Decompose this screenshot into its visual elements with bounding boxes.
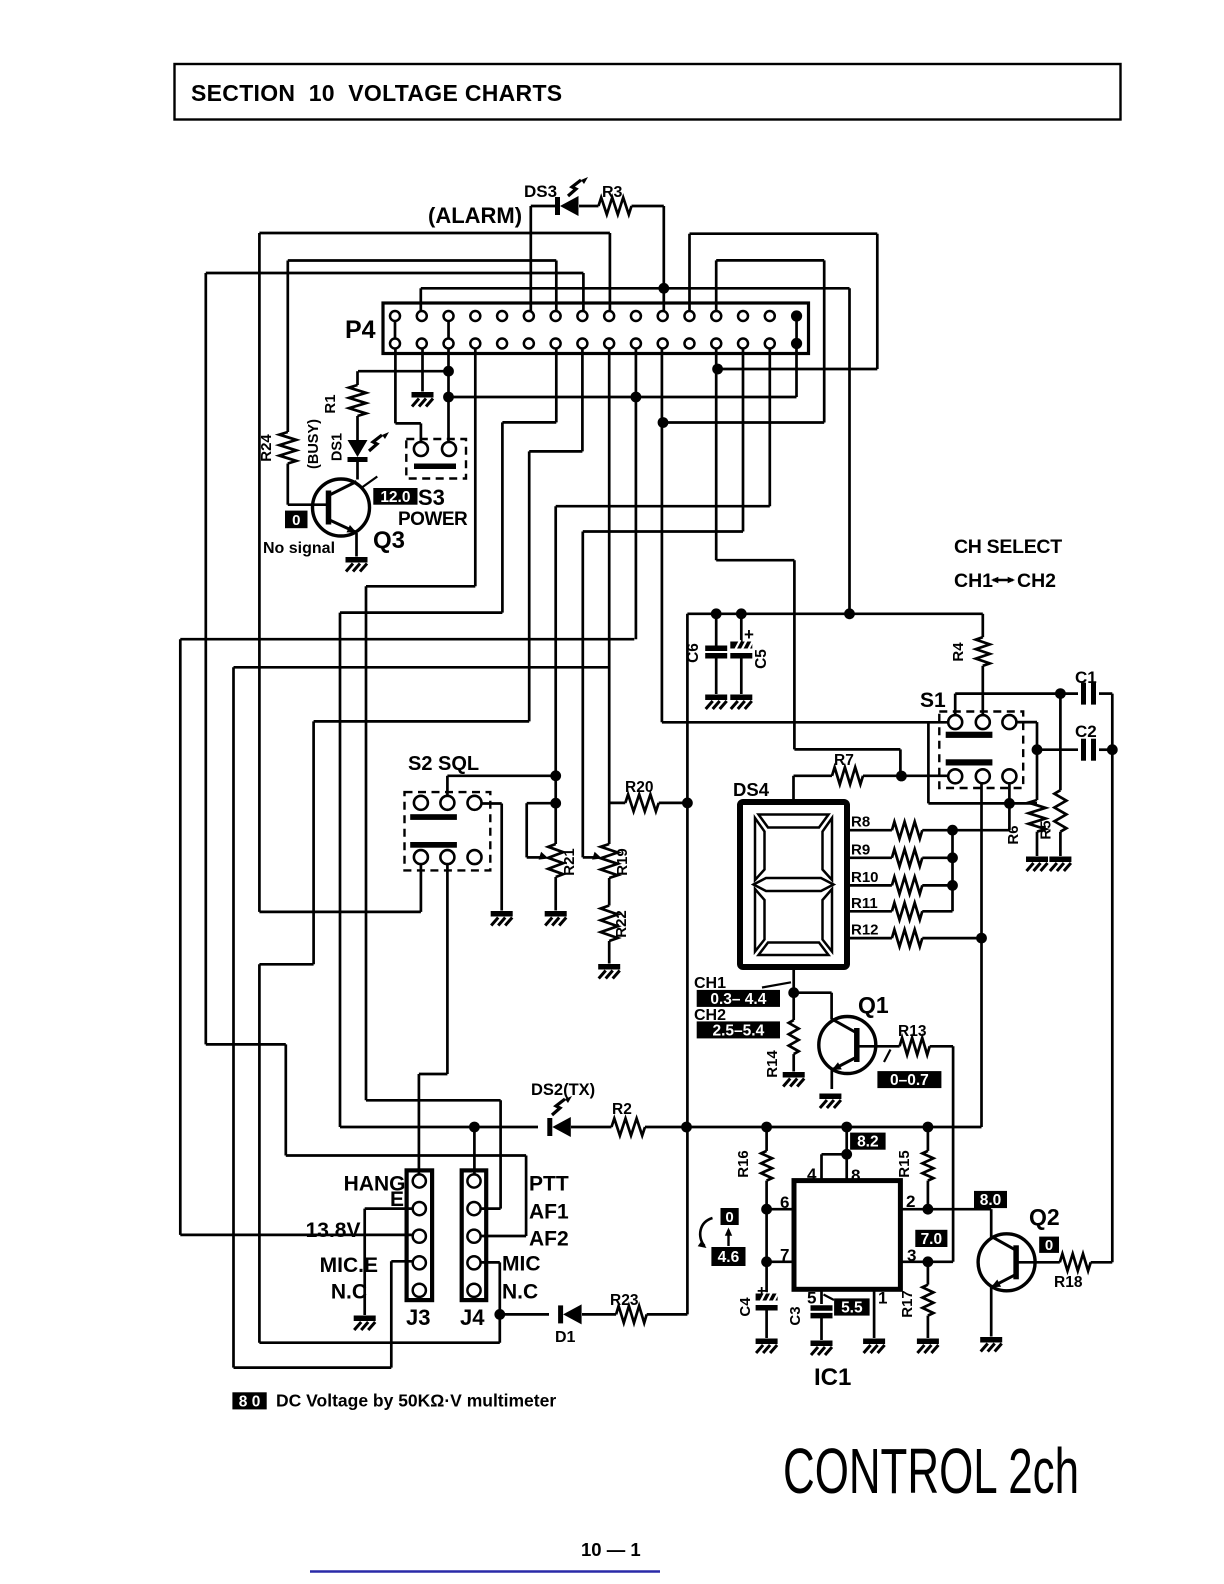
svg-text:AF1: AF1: [529, 1201, 569, 1224]
wire MIC elbow: [481, 1261, 500, 1264]
wire pin7 vertical x502: [501, 422, 504, 612]
leader line 12.0: [363, 477, 378, 488]
svg-text:3: 3: [907, 1246, 916, 1265]
arrow 4.6 to 0: [727, 1230, 729, 1246]
wire Q2 collector lead: [990, 1209, 993, 1238]
wire supply line y1127: [645, 1126, 982, 1129]
ground under Q1: [819, 1094, 841, 1100]
wire right-edge vertical x1112: [1111, 694, 1114, 1263]
legend 8.0 box: [232, 1392, 266, 1409]
svg-text:R8: R8: [851, 814, 870, 831]
svg-text:R13: R13: [898, 1023, 927, 1040]
svg-text:0.3– 4.4: 0.3– 4.4: [710, 991, 766, 1008]
svg-text:AF2: AF2: [529, 1228, 569, 1251]
wire S1-tl stub up: [954, 694, 957, 716]
wire R16 top lead: [765, 1127, 768, 1151]
svg-text:CONTROL 2ch: CONTROL 2ch: [783, 1435, 1079, 1507]
svg-text:8 0: 8 0: [239, 1393, 261, 1410]
wire line C (AF2 bus to pin8 top): [206, 272, 584, 275]
wire HANG to J3 pin1: [418, 1074, 421, 1175]
wire pin15 line to S2/R21: [556, 505, 770, 508]
wire Q2 base lead: [1016, 1261, 1059, 1264]
voltage 0 at Q2: [1039, 1237, 1059, 1253]
resistor R17: [922, 1285, 933, 1316]
wire pin13 down to R7 line: [899, 749, 902, 776]
wire D1 line left: [500, 1313, 549, 1316]
wire pin13 vertical x794: [793, 560, 796, 749]
wire S1-tr elbow: [1016, 721, 1037, 724]
svg-text:J3: J3: [406, 1305, 430, 1330]
wire supply rail y614: [687, 612, 982, 615]
wire R24 to Q3 base: [286, 464, 289, 505]
wire 13.8V bus to pin10: [180, 638, 634, 641]
svg-text:CH SELECT: CH SELECT: [954, 536, 1062, 558]
wire R7 left lead: [794, 774, 833, 777]
wire P4 col1 internal link: [394, 321, 397, 339]
node pin4/pin8 tie: [841, 1149, 852, 1160]
wire vertical x928 (rail to y803): [927, 722, 930, 803]
node rail/col2 branch: [844, 608, 855, 619]
wire R21 wiper arrow lead: [527, 856, 541, 859]
wire pin8 line left (MIC bus): [314, 720, 530, 723]
svg-text:C5: C5: [753, 649, 770, 669]
wire DS1 to Q3 collector: [356, 462, 359, 480]
wire Q2 emitter to ground: [990, 1288, 993, 1337]
wire line B down (R24 top): [286, 261, 289, 433]
wire line B (R24 to pin7 top): [288, 259, 557, 262]
svg-text:2.5–5.4: 2.5–5.4: [712, 1023, 764, 1040]
svg-text:R6: R6: [1005, 825, 1022, 844]
voltage 0 at pin6: [721, 1208, 739, 1225]
voltage label 12.0 at Q3 collector: [373, 488, 417, 505]
svg-text:0: 0: [725, 1209, 733, 1226]
IC U1 (IC1): [794, 1181, 900, 1290]
wire R19 wiper arrow lead: [583, 856, 595, 859]
wire R1 top line: [358, 370, 449, 373]
node R7 line / pin13 branch: [896, 771, 907, 782]
wire pin7 lead: [767, 1260, 794, 1263]
wire pin7 top stub: [555, 261, 558, 312]
wire pin2 line: [900, 1208, 991, 1211]
wire R20 right lead: [659, 802, 688, 805]
svg-text:2: 2: [906, 1192, 915, 1211]
wire col11 branch y422: [663, 421, 824, 424]
wire line D (pin2 top to rail): [421, 287, 850, 290]
wire S1-bm pin down to supply line: [980, 783, 983, 1126]
leader 0-0.7: [884, 1050, 891, 1063]
voltage 4.6: [711, 1247, 745, 1266]
svg-text:S1: S1: [920, 689, 946, 712]
wire Q1 collector lead: [830, 993, 833, 1020]
wire S1-tr down to C2 line: [1036, 722, 1039, 750]
svg-text:R10: R10: [851, 869, 879, 886]
svg-text:DC Voltage by 50KΩ·V multimete: DC Voltage by 50KΩ·V multimeter: [276, 1391, 556, 1411]
LED DS1 (BUSY): [348, 440, 368, 457]
svg-text:+: +: [744, 625, 754, 644]
svg-text:D1: D1: [555, 1329, 576, 1346]
wire pin1 to ground: [873, 1289, 876, 1338]
wire MIC.E bus to pin9 column: [234, 666, 610, 669]
ground under R5: [1049, 857, 1071, 863]
capacitor C6: [715, 614, 718, 648]
wire E pin to ground: [365, 1207, 413, 1210]
wire R12 right lead: [922, 937, 981, 940]
resistor R1: [349, 385, 366, 416]
transistor Q3: [313, 479, 370, 536]
wire DS4 common bottom: [792, 967, 795, 1020]
wire pin2 top stub: [419, 288, 422, 311]
voltage 8.2: [850, 1133, 886, 1150]
wire S1-br pin down to R8 line: [1008, 783, 1011, 830]
svg-text:R21: R21: [561, 848, 578, 876]
node supply/pin8: [841, 1122, 852, 1133]
wire pin15 bottom stub: [768, 349, 771, 507]
svg-text:10 — 1: 10 — 1: [581, 1539, 641, 1560]
wire 13.8V line: [180, 1234, 412, 1237]
wire HANG jog: [419, 1073, 448, 1076]
svg-text:8.2: 8.2: [857, 1134, 879, 1151]
node pin3/R17: [923, 1256, 934, 1267]
wire R7 to S1: [863, 774, 948, 777]
wire S2 top-right to ground: [500, 804, 503, 911]
node C2 / right vertical: [1107, 744, 1118, 755]
wire supply end to S1-bm column: [980, 1125, 983, 1128]
resistor R5: [1059, 694, 1062, 791]
wire PTT stub to J4: [473, 1127, 476, 1175]
wire R15 top lead: [927, 1127, 930, 1151]
ground under C3: [811, 1341, 833, 1347]
svg-text:DS1: DS1: [330, 433, 346, 461]
svg-text:Q2: Q2: [1029, 1204, 1060, 1230]
wire AF1 bus vertical x366: [365, 586, 368, 1100]
ground under R14: [783, 1072, 805, 1078]
svg-text:No signal: No signal: [263, 540, 335, 557]
resistor R23: [616, 1306, 647, 1323]
wire R10 right lead: [922, 884, 952, 887]
ground under E: [354, 1316, 376, 1322]
wire S2 bottom-left to x259: [259, 911, 421, 914]
wire pin9 top stub: [609, 233, 612, 311]
connector P4: [383, 303, 809, 354]
voltage 5.5: [834, 1298, 870, 1315]
ground under R6: [1026, 857, 1048, 863]
node C2 line / R6 column: [1032, 744, 1043, 755]
wire Q1 emitter to ground: [830, 1070, 833, 1089]
resistor R16: [761, 1151, 772, 1181]
wire R13 down to pin3 net: [952, 1046, 955, 1262]
svg-text:5: 5: [807, 1289, 816, 1308]
wire S2 bottom-left stub: [420, 864, 423, 912]
svg-text:5.5: 5.5: [841, 1300, 863, 1317]
wire MIC.E vertical: [390, 1261, 393, 1367]
node C1 line / R5: [1055, 688, 1066, 699]
wire AF2 top run: [286, 1154, 526, 1157]
DS2 light arrows: [552, 1099, 565, 1115]
connector J4: [462, 1170, 487, 1300]
wire S2 top-middle stub: [446, 776, 449, 796]
svg-text:N.C: N.C: [502, 1281, 538, 1304]
voltage label 0-0.7: [877, 1071, 941, 1088]
svg-text:R19: R19: [614, 848, 631, 876]
ground under Q2: [980, 1337, 1002, 1343]
wire pin8 supply lead: [845, 1127, 848, 1181]
svg-text:CH2: CH2: [1017, 570, 1056, 592]
resistor R14: [789, 1020, 799, 1054]
wire Q3 emitter to ground: [355, 533, 358, 557]
svg-text:R18: R18: [1054, 1274, 1083, 1291]
ground under R17: [917, 1339, 939, 1345]
node R21 column / S2: [550, 770, 561, 781]
wire pin10 bottom stub: [635, 349, 638, 640]
wire R9 right lead: [922, 856, 952, 859]
wire R17 top lead: [927, 1262, 930, 1285]
wire pin4 elbow: [822, 1153, 847, 1156]
wire C1 line: [955, 692, 1078, 695]
arrow CH1-CH2: [993, 579, 1013, 582]
wire DS4 common top stub: [792, 776, 795, 802]
wire pin12 top loop: [690, 232, 878, 235]
svg-text:R23: R23: [610, 1292, 639, 1309]
svg-text:R4: R4: [950, 642, 967, 662]
switch S2 SQL: [405, 792, 491, 870]
svg-text:C2: C2: [1075, 722, 1097, 741]
wire line D vertical x849 to rail: [848, 288, 851, 614]
wire AF2 bus vertical x205: [204, 273, 207, 1044]
wire pin7 bottom stub: [555, 349, 558, 423]
voltage CH2 2.5-5.4: [697, 1021, 780, 1038]
LED DS2 (TX): [547, 1118, 552, 1136]
node R8/join column: [947, 825, 958, 836]
ground under pin1: [863, 1339, 885, 1345]
svg-text:DS3: DS3: [524, 182, 557, 201]
wire pin7 elbow left: [502, 421, 556, 424]
wire right loop vertical x824: [823, 260, 826, 422]
resistor R13: [900, 1038, 930, 1055]
svg-text:P4: P4: [345, 316, 376, 344]
svg-text:6: 6: [780, 1193, 789, 1212]
node PTT branch: [469, 1122, 480, 1133]
svg-text:C1: C1: [1075, 668, 1097, 687]
wire pin9 bottom to R19: [608, 349, 611, 845]
switch S3 POWER: [406, 439, 466, 479]
transistor Q1: [819, 1017, 876, 1074]
ground under pin2: [412, 392, 434, 398]
svg-text:C4: C4: [737, 1297, 754, 1317]
wire pin11 bottom stub: [661, 349, 664, 723]
wire to S3 left pin: [420, 423, 423, 442]
svg-text:J4: J4: [460, 1305, 485, 1330]
wire pin13 line right: [716, 559, 794, 562]
svg-text:(ALARM): (ALARM): [428, 203, 522, 228]
resistor R11: [847, 910, 892, 913]
svg-text:R1: R1: [322, 394, 339, 413]
ground right of S2: [491, 911, 513, 917]
resistor R24: [279, 432, 296, 464]
ground under C5: [730, 695, 752, 701]
wire pin3 line: [900, 1260, 953, 1263]
svg-text:R15: R15: [896, 1150, 913, 1178]
wire pin13 top loop: [716, 259, 824, 262]
svg-text:Q1: Q1: [858, 992, 889, 1018]
wire TX bus vertical x340: [339, 613, 342, 1127]
svg-text:4.6: 4.6: [718, 1249, 740, 1266]
resistor R7: [832, 767, 863, 784]
wire pin16 bottom stub: [795, 349, 798, 398]
svg-text:R5: R5: [1038, 820, 1055, 839]
svg-text:PTT: PTT: [529, 1173, 569, 1196]
ground under Q3: [346, 557, 368, 563]
resistor R20: [625, 794, 658, 811]
wire Q1 base to R13: [857, 1045, 900, 1048]
voltage 7.0: [915, 1230, 947, 1247]
ground under R22: [598, 964, 620, 970]
svg-text:13.8V: 13.8V: [306, 1219, 361, 1242]
node pin7: [761, 1256, 772, 1267]
node supply/R15: [923, 1122, 934, 1133]
wire pin4 bottom long stub: [474, 349, 477, 587]
voltage CH1 0.3-4.4: [697, 990, 780, 1007]
node R10 join: [947, 880, 958, 891]
svg-text:N.C: N.C: [331, 1281, 367, 1304]
svg-text:R16: R16: [735, 1150, 752, 1178]
svg-text:12.0: 12.0: [380, 489, 410, 506]
wire pin8 vertical x529: [528, 451, 531, 721]
resistor R8: [847, 829, 892, 832]
wire AF2 vertical: [525, 1156, 528, 1237]
capacitor C2: [1037, 748, 1078, 751]
wire R16 bottom to C4: [765, 1181, 768, 1293]
wire pin5 stub: [820, 1289, 823, 1304]
svg-text:R20: R20: [625, 779, 653, 796]
svg-text:C3: C3: [787, 1306, 804, 1325]
potentiometer R21: [548, 844, 563, 877]
voltage 8.0: [974, 1191, 1007, 1208]
DS1 light arrows: [369, 435, 382, 451]
svg-text:(BUSY): (BUSY): [306, 419, 322, 469]
resistor R22: [601, 906, 618, 942]
wire R15 bottom: [927, 1181, 930, 1210]
resistor R4: [976, 637, 990, 666]
resistor R10: [847, 884, 892, 887]
wire MIC bottom run: [259, 1341, 499, 1344]
node DS4/R14/Q1: [788, 987, 799, 998]
wire pin14 bottom stub: [742, 349, 745, 532]
node MIC/D1: [494, 1309, 505, 1320]
wire R1 top lead: [356, 371, 359, 385]
wire pin13 branch to x877: [718, 368, 878, 371]
wire main supply vertical x687: [686, 614, 689, 1315]
node line D / R3 junction: [658, 283, 669, 294]
wire S2 top-middle to R21 column: [447, 774, 555, 777]
potentiometer R19: [601, 844, 618, 878]
wire S2 bus vertical x259 upper: [258, 233, 261, 912]
wire R18 right lead: [1091, 1261, 1113, 1264]
wire AF2 bus vertical x285: [284, 1044, 287, 1155]
wire join column x952: [951, 830, 954, 911]
svg-text:8.0: 8.0: [980, 1192, 1002, 1209]
leader CH1: [762, 982, 791, 987]
node pin2/R15: [923, 1204, 934, 1215]
wire AF2 elbow: [481, 1235, 527, 1238]
svg-text:S2 SQL: S2 SQL: [408, 753, 479, 775]
wire R11 right lead: [922, 910, 952, 913]
resistor R12: [847, 937, 892, 940]
wire S2 top-right elbow: [482, 802, 502, 805]
wire MIC bus vertical x313: [312, 721, 315, 964]
svg-text:C6: C6: [685, 643, 702, 663]
svg-text:R7: R7: [834, 752, 854, 769]
wire TX line left: [340, 1126, 538, 1129]
svg-text:R17: R17: [899, 1290, 916, 1318]
wire MIC.E bottom run: [234, 1366, 392, 1369]
wire pin12 top stub: [688, 234, 691, 311]
wire pin13 top stub: [715, 260, 718, 311]
ground under C6: [705, 695, 727, 701]
wire 397 line to filled pin16: [449, 396, 797, 399]
wire E vertical: [363, 1209, 366, 1315]
wire R19 wiper vertical: [581, 532, 584, 858]
svg-text:7: 7: [780, 1246, 789, 1265]
title box: [175, 64, 1121, 120]
svg-text:R2: R2: [612, 1101, 632, 1118]
wire P4 col16 internal link: [795, 316, 798, 344]
svg-text:0: 0: [292, 512, 300, 529]
wire R4 top lead: [981, 614, 984, 637]
node col10/397 line: [631, 392, 642, 403]
wire right loop vertical x877: [876, 234, 879, 369]
svg-text:0–0.7: 0–0.7: [890, 1072, 929, 1089]
wire pin3 bottom stub to S3: [447, 349, 450, 443]
connector J3: [407, 1170, 433, 1300]
wire R23 to supply vertical: [647, 1313, 688, 1316]
svg-text:DS4: DS4: [733, 779, 770, 800]
svg-text:1: 1: [878, 1289, 887, 1308]
svg-text:R14: R14: [764, 1050, 781, 1078]
wire R4 to S1 top-middle: [981, 666, 984, 715]
node R12 / S1-bm column: [976, 933, 987, 944]
ground under R21: [545, 911, 567, 917]
capacitor C1: [1081, 683, 1086, 705]
svg-text:IC1: IC1: [814, 1364, 851, 1391]
wire MIC.E bus vertical x233: [232, 667, 235, 1367]
wire pin4 stub: [820, 1154, 823, 1180]
wire MIC bus jog: [259, 963, 313, 966]
svg-text:DS2(TX): DS2(TX): [531, 1081, 595, 1099]
wire R21 wiper bracket side: [525, 803, 528, 857]
transistor Q2: [978, 1234, 1035, 1291]
wire AF1 top run: [366, 1099, 501, 1102]
svg-text:+: +: [757, 1283, 766, 1300]
node pin13 stub junction y369: [712, 364, 723, 375]
svg-text:MIC.E: MIC.E: [320, 1254, 378, 1277]
wire MIC vertical: [498, 1262, 501, 1342]
wire vertical x555 to R21: [554, 506, 557, 844]
wire pin8 elbow left: [529, 450, 582, 453]
svg-text:7.0: 7.0: [921, 1231, 943, 1248]
svg-text:CH1: CH1: [694, 975, 726, 992]
wire ALARM to pin6 top: [529, 206, 532, 311]
wire pin6 lead: [767, 1208, 794, 1211]
wire pin1 elbow: [395, 422, 421, 425]
svg-text:MIC: MIC: [502, 1253, 541, 1276]
svg-text:R11: R11: [851, 895, 878, 912]
wire S2 bottom-middle (HANG): [446, 864, 449, 1074]
wire pin14 line to R19 wiper: [583, 530, 743, 533]
wire AF1 vertical: [499, 1100, 502, 1208]
wire pin4 line left (AF1 bus): [366, 585, 475, 588]
wire col11 line to S1: [662, 721, 948, 724]
resistor R15: [922, 1151, 933, 1181]
